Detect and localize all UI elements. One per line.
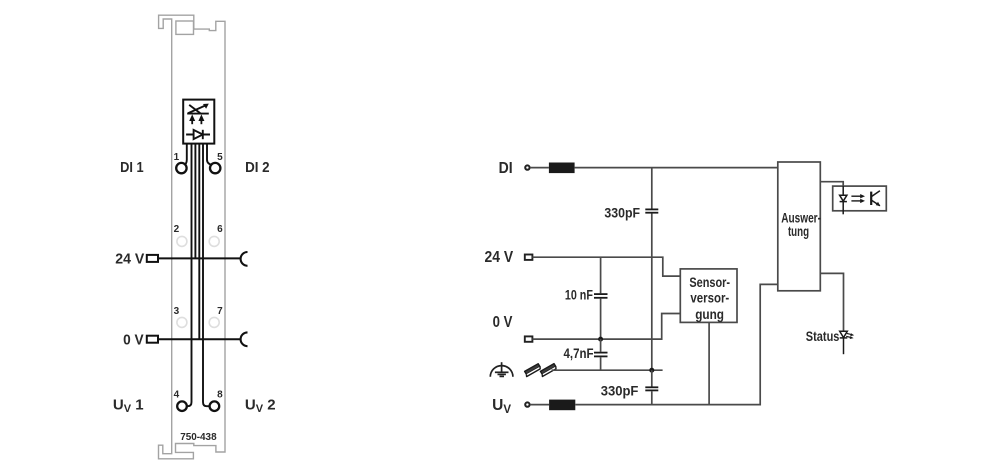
wire node DI/C1 down — [651, 168, 653, 209]
wire: box pin to 24V rail — [194, 144, 196, 259]
wire sensor box to Uv rail — [708, 322, 710, 404]
svg-text:DI 2: DI 2 — [245, 160, 270, 176]
wire Auswertung to optocoupler — [820, 182, 843, 186]
svg-text:24 V: 24 V — [115, 252, 144, 268]
power jumper contact (24V) — [241, 252, 248, 266]
capacitor C2 10nF — [594, 294, 608, 298]
svg-text:5: 5 — [217, 152, 223, 163]
shield clamp symbol — [525, 364, 556, 377]
wire: box pin to contact 1 — [184, 144, 187, 166]
svg-text:2: 2 — [174, 224, 180, 235]
wire C3 to shield line — [600, 357, 602, 370]
terminal square 0V — [147, 336, 158, 343]
wire 24V node to C2 — [600, 257, 602, 293]
svg-text:Status: Status — [806, 329, 840, 344]
symbol: diode D1 — [186, 130, 210, 139]
contact 2 (unused) — [177, 236, 187, 246]
svg-text:0 V: 0 V — [493, 314, 513, 331]
svg-text:UV 1: UV 1 — [113, 396, 144, 415]
svg-text:24 V: 24 V — [485, 249, 514, 266]
wire shield line — [552, 369, 663, 371]
symbol: crossed arrow over bar — [187, 105, 209, 114]
optocoupler light arrows — [851, 196, 861, 201]
optocoupler phototransistor — [871, 191, 880, 206]
optocoupler LED — [840, 186, 847, 214]
wire 0V node to C3 — [600, 339, 602, 352]
contact 5 — [210, 163, 220, 173]
svg-text:UV: UV — [492, 397, 511, 416]
wire Uv terminal to resistor — [530, 404, 549, 406]
svg-text:tung: tung — [788, 223, 809, 239]
resistor R1 (DI series) — [549, 163, 575, 174]
optocoupler box — [833, 186, 887, 211]
svg-text:10 nF: 10 nF — [565, 287, 593, 302]
contact 6 (unused) — [209, 236, 219, 246]
svg-text:0 V: 0 V — [123, 332, 144, 348]
Sensorversorgung box — [680, 269, 737, 323]
contact 8 — [210, 401, 220, 411]
svg-text:6: 6 — [217, 224, 223, 235]
junction 0V/C2/C3 — [598, 337, 603, 342]
contact 4 — [177, 401, 187, 411]
wire C2 to 0V node — [600, 299, 602, 340]
contact 7 (unused) — [209, 317, 219, 327]
power jumper contact (0V) — [241, 332, 248, 346]
wire C1 down through 24V and 0V to shield node — [651, 214, 653, 371]
terminal DI — [525, 165, 529, 169]
wire: box pin to 0V rail — [198, 144, 200, 340]
terminal 0V — [525, 336, 533, 341]
wire node to C4 — [651, 370, 653, 386]
wire: box pin to contact 5 — [207, 144, 213, 166]
capacitor C3 4.7nF — [594, 353, 608, 357]
terminal 24V — [525, 255, 533, 260]
capacitor C4 330pF — [645, 387, 658, 390]
wire: box pin to contact 4 — [187, 144, 192, 407]
svg-text:330pF: 330pF — [601, 384, 639, 399]
Auswertung box — [778, 162, 821, 291]
module top latch recess — [176, 21, 194, 34]
capacitor C1 330pF — [645, 209, 658, 212]
svg-text:Sensor-: Sensor- — [689, 274, 730, 290]
wire Auswertung to status LED — [820, 273, 843, 331]
svg-text:DI: DI — [499, 160, 513, 177]
function block U1 (input circuit box) — [183, 100, 214, 144]
svg-text:7: 7 — [217, 306, 223, 317]
svg-text:8: 8 — [217, 390, 223, 401]
wire: 24V rail — [158, 257, 240, 259]
wire 0V to sensor box — [532, 314, 680, 340]
svg-text:4,7nF: 4,7nF — [564, 346, 594, 361]
wire DI terminal to resistor — [530, 167, 549, 169]
ground (functional earth) symbol — [490, 362, 513, 377]
wire DI to Auswertung — [575, 167, 778, 169]
wire: box pin to contact 8 — [203, 144, 210, 407]
symbol: two up arrows — [192, 120, 201, 125]
wire: 0V rail — [158, 338, 240, 340]
wire 24V to sensor box — [532, 257, 680, 276]
svg-text:gung: gung — [695, 306, 724, 322]
resistor R2 (Uv series) — [549, 400, 575, 411]
svg-text:3: 3 — [174, 306, 180, 317]
module body outline — [159, 15, 226, 459]
svg-text:330pF: 330pF — [604, 206, 640, 221]
status LED — [840, 331, 848, 354]
terminal square 24V — [147, 255, 158, 262]
svg-text:1: 1 — [174, 152, 180, 163]
wire Uv rail to Auswertung — [575, 284, 778, 404]
terminal Uv — [525, 402, 529, 406]
svg-text:750-438: 750-438 — [180, 432, 217, 443]
svg-text:4: 4 — [174, 390, 180, 401]
contact 3 (unused) — [177, 317, 187, 327]
junction shield/C1/C4 — [649, 368, 654, 373]
contact 1 — [176, 163, 186, 173]
svg-text:UV 2: UV 2 — [245, 396, 276, 415]
wire C4 to Uv rail — [651, 391, 653, 404]
svg-text:versor-: versor- — [690, 290, 729, 306]
svg-text:DI 1: DI 1 — [120, 160, 144, 176]
status LED light arrows — [846, 333, 851, 337]
